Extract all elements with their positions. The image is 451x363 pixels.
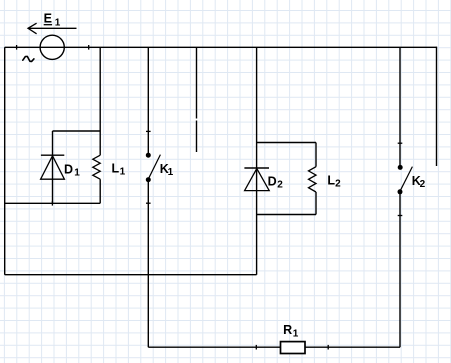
svg-text:2: 2 <box>420 179 426 190</box>
svg-text:D: D <box>64 162 73 176</box>
svg-text:E: E <box>44 11 52 25</box>
svg-text:2: 2 <box>335 179 341 190</box>
svg-text:1: 1 <box>55 17 61 28</box>
svg-text:L: L <box>112 162 120 176</box>
svg-text:1: 1 <box>74 167 80 178</box>
svg-text:1: 1 <box>168 167 174 178</box>
svg-text:D: D <box>268 174 277 188</box>
svg-text:2: 2 <box>277 179 283 190</box>
svg-text:1: 1 <box>293 328 299 339</box>
svg-text:R: R <box>283 323 292 337</box>
svg-text:1: 1 <box>120 167 126 178</box>
